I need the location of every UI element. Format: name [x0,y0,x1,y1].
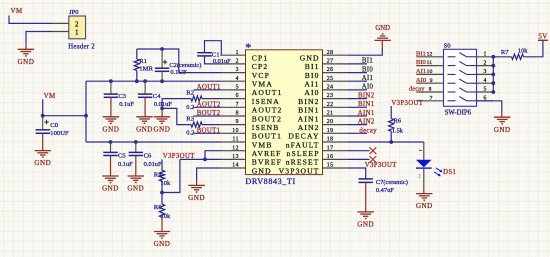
junction VMB rail at C6 [134,140,138,144]
pin 2 stub of JP0 [52,22,69,24]
wire switch pin 6 to ground [477,101,502,112]
svg-text:20: 20 [327,119,334,125]
svg-text:4: 4 [484,78,487,84]
wire BIN1 [348,106,368,108]
wire AIN1 [348,115,368,117]
svg-text:BIN2: BIN2 [358,92,375,99]
wire VMA rail [86,80,221,82]
svg-text:S0: S0 [444,43,452,50]
svg-text:decay: decay [359,128,377,135]
net label AIN2 [358,118,375,125]
wire GND pin 14 [197,168,221,180]
svg-text:14: 14 [232,163,239,169]
svg-text:AI0: AI0 [304,88,319,97]
junction VMA rail at C2 [160,79,164,83]
svg-text:5V: 5V [538,32,547,40]
net label AI0 [362,84,374,91]
svg-text:3: 3 [484,69,487,75]
svg-text:10: 10 [232,128,239,134]
svg-text:AOUT1: AOUT1 [252,88,283,97]
svg-text:10k: 10k [161,213,171,220]
net label BI0 [362,66,373,73]
pin 7 number [430,95,433,101]
wire VM label to C0 node [42,99,44,115]
junction bus row 5 [491,90,495,94]
svg-text:26: 26 [327,67,334,73]
net label AIN1 [358,110,375,117]
svg-text:24: 24 [327,85,334,91]
ground (below C4) [136,117,153,134]
svg-text:V3P3OUT: V3P3OUT [163,153,195,160]
svg-text:4: 4 [236,76,239,82]
ground (below JP0) [17,49,34,66]
svg-text:AI0: AI0 [416,77,427,84]
net label V3P3OUT (pin 15) [365,162,397,169]
svg-text:V3P3OUT: V3P3OUT [279,166,320,175]
svg-text:VMA: VMA [252,80,273,89]
net label V3P3OUT (at R6) [391,100,423,107]
svg-text:AOUT1: AOUT1 [197,84,221,91]
svg-text:13: 13 [232,154,239,160]
wire AIN2 [348,124,368,126]
svg-text:GND: GND [188,194,205,202]
net label BIN2 [358,92,375,99]
svg-text:BOUT1: BOUT1 [252,132,282,141]
svg-text:10k: 10k [518,48,528,55]
svg-text:R6: R6 [393,118,401,125]
junction VM riser / C0 branch [84,114,88,118]
svg-text:10k: 10k [161,180,171,187]
svg-text:AIN1: AIN1 [358,110,375,117]
svg-text:15: 15 [327,163,334,169]
svg-text:GND: GND [154,240,171,248]
junction VMA rail at C4 [143,79,147,83]
svg-text:GND: GND [127,185,144,193]
svg-text:GND: GND [357,221,374,229]
svg-text:12: 12 [427,51,433,57]
svg-text:0.01uF: 0.01uF [144,161,162,168]
resistor R6 1.5k [389,106,404,142]
svg-text:9: 9 [236,119,239,125]
wire BI1 [348,63,368,65]
svg-text:2: 2 [75,20,79,28]
svg-text:1: 1 [236,50,239,56]
polarity mark asterisk [245,40,251,54]
svg-text:VMB: VMB [252,140,273,149]
ground (below C3) [102,117,119,134]
svg-text:AIN2: AIN2 [298,123,320,132]
svg-text:VM: VM [44,92,56,100]
wire nSLEEP [348,150,370,152]
svg-text:9: 9 [430,78,433,84]
wire AOUT1 [194,89,221,91]
svg-text:nFAULT: nFAULT [286,140,320,149]
pin 1 stub of JP0 [52,31,69,33]
svg-text:CP1: CP1 [252,54,269,63]
junction VMA rail at C3 [109,79,113,83]
svg-text:16: 16 [327,154,334,160]
net label BOUT1 [197,128,221,135]
capacitor C6 0.01uF [129,142,162,176]
net label BIN1 [358,101,375,108]
svg-text:2: 2 [484,60,487,66]
power symbol 5V [538,32,548,40]
svg-text:GND: GND [416,202,433,210]
svg-text:10: 10 [427,69,433,75]
svg-text:BIN2: BIN2 [298,97,319,106]
wire VCP top rail [137,49,221,73]
ground (below C5) [102,176,119,193]
ground (below R5) [154,232,171,249]
svg-text:8: 8 [236,111,239,117]
resistor R1 1MR [134,49,153,81]
svg-text:AI0: AI0 [362,84,374,91]
ground (below LED) [416,188,433,210]
wire BVREF (pin 13) [180,158,221,160]
svg-text:AI1: AI1 [362,75,374,82]
svg-text:1MR: 1MR [139,66,153,73]
wire VM riser (vertical) [85,81,87,142]
svg-text:C2(ceramic): C2(ceramic) [169,62,201,69]
svg-text:0.1uF: 0.1uF [119,101,134,108]
junction top rail at C2 [160,47,164,51]
svg-text:6: 6 [236,93,239,99]
svg-text:BI1: BI1 [305,62,320,71]
svg-text:5: 5 [484,87,487,93]
svg-text:C7(ceramic): C7(ceramic) [376,179,408,186]
svg-text:DRV8843_TI: DRV8843_TI [245,177,295,186]
junction bus row 1 [491,55,495,59]
svg-text:22: 22 [327,102,334,108]
svg-text:AI1: AI1 [416,68,426,75]
net label DS1 [443,169,456,176]
junction AVREF/BVREF [203,158,207,162]
svg-text:11: 11 [232,137,239,143]
svg-text:AI1: AI1 [304,80,319,89]
svg-text:0.47uF: 0.47uF [376,187,394,194]
capacitor C0 100UF (polarized) [36,116,69,151]
svg-text:BI1: BI1 [362,58,373,65]
net label AI1 [362,75,374,82]
svg-text:100UF: 100UF [50,130,69,137]
capacitor C5 0.1uF [103,142,133,176]
svg-text:C4: C4 [153,93,161,100]
resistor R7 10k [501,48,528,60]
svg-text:2: 2 [236,59,239,65]
resistor R5 10k [154,193,171,232]
net label AI0 / pin 9 [416,77,433,84]
svg-text:JP0: JP0 [69,9,79,16]
op-amp U1 DRV8843_TI (IC body with pins) [221,50,348,176]
svg-text:BOUT1: BOUT1 [197,128,221,135]
ground (below C0) [34,151,51,168]
net label decay [359,128,377,135]
svg-text:AIN2: AIN2 [358,118,375,125]
svg-text:AOUT2: AOUT2 [252,106,283,115]
svg-text:0.2: 0.2 [186,104,194,111]
svg-text:BOUT2: BOUT2 [197,110,221,117]
svg-text:5: 5 [236,85,239,91]
net label decay / pin 8 [409,86,432,93]
svg-text:28: 28 [327,50,334,56]
svg-text:R4: R4 [154,172,162,179]
svg-text:V3P3OUT: V3P3OUT [365,162,397,169]
ground (sense resistors) [153,108,170,133]
wire CP2 from C1 [205,56,221,64]
svg-text:ISENB: ISENB [252,123,280,132]
net label BI0 / pin 11 [416,59,432,66]
svg-text:SW-DIP6: SW-DIP6 [445,109,472,116]
svg-text:19: 19 [327,128,334,134]
svg-text:AVREF: AVREF [252,149,282,158]
wire C0 node to VM riser [43,115,86,117]
svg-text:Header 2: Header 2 [68,43,95,50]
wire AOUT2 [194,106,221,108]
svg-text:*: * [245,40,251,54]
ground (below C6) [127,176,144,193]
svg-text:0.1UF: 0.1UF [170,69,187,76]
wire AI1 [348,80,368,82]
net label AOUT2 [197,102,221,109]
svg-text:7: 7 [236,102,239,108]
resistor R2 0.2 [186,90,220,111]
ground (below C7) [357,212,374,229]
svg-text:BI0: BI0 [362,66,373,73]
svg-text:R2: R2 [186,90,194,97]
svg-text:1: 1 [75,29,79,37]
ground (below switch) [494,111,511,134]
wire BVREF down to divider [162,159,180,192]
svg-text:decay: decay [409,86,425,93]
svg-text:21: 21 [327,111,334,117]
capacitor C7 0.47uF ceramic [359,179,408,212]
svg-text:18: 18 [327,137,334,143]
svg-text:AOUT2: AOUT2 [197,102,221,109]
wire nFAULT down to LED [423,142,425,160]
wire sense ground to R3 [162,108,191,124]
svg-text:GND: GND [34,159,51,167]
junction VMB rail at C5 [109,140,113,144]
svg-text:C0: C0 [50,122,58,129]
svg-text:GND: GND [102,185,119,193]
svg-text:1: 1 [484,52,487,58]
svg-text:GND: GND [153,125,170,133]
junction bus row 3 [491,73,495,77]
wire pin 28 to ground [348,48,383,55]
svg-text:25: 25 [327,76,334,82]
ground (pin 14) [188,179,205,202]
junction divider midpoint [160,191,164,195]
ground (above pin 28, pointing up) [375,25,391,49]
svg-text:GND: GND [494,126,511,134]
svg-text:BIN1: BIN1 [358,101,375,108]
svg-text:8: 8 [429,87,432,93]
svg-text:3: 3 [236,67,239,73]
svg-text:27: 27 [327,59,334,65]
wire V3P3OUT pin 15 [348,168,366,179]
junction bus row 4 [491,81,495,85]
net label AI1 / pin 10 [416,68,433,75]
wire AI0 [348,89,368,91]
svg-text:0.1uF: 0.1uF [118,161,133,168]
capacitor C2 0.1UF ceramic [155,49,201,81]
wire R2 to sense ground [162,99,191,109]
capacitor C1 0.01uF [197,51,231,65]
svg-text:R3: R3 [186,115,194,122]
svg-text:R5: R5 [154,204,162,211]
svg-text:BI1: BI1 [416,50,426,57]
svg-text:BIN1: BIN1 [298,106,319,115]
wire JP0 pin 1 to ground [26,32,52,50]
connector JP0 [68,9,95,50]
junction sense ground [160,107,164,111]
wire VMB rail [86,141,221,143]
svg-text:7: 7 [430,95,433,101]
svg-text:BI0: BI0 [416,59,427,66]
net label VM (middle left) [44,92,56,100]
wire AVREF (pin 12) [205,151,221,160]
svg-text:DECAY: DECAY [288,132,319,141]
wire BOUT2 [194,115,221,117]
wire R7 to 5V [524,40,543,57]
designator text DRV8843_TI [245,177,295,186]
net label AOUT1 [197,84,221,91]
net label VM (top left) [11,7,23,15]
wire bus to R7 [493,56,511,58]
wire nFAULT [348,141,424,143]
capacitor C3 0.1uF [104,81,135,117]
net label BI1 [362,58,373,65]
svg-text:12: 12 [232,145,239,151]
svg-text:ISENA: ISENA [252,97,280,106]
svg-text:CP2: CP2 [252,62,269,71]
wire CP1 loop [205,41,222,56]
svg-text:23: 23 [327,93,334,99]
resistor R4 10k [154,159,171,192]
wire BOUT1 [194,132,221,134]
wire BI0 [348,72,368,74]
svg-text:0.2: 0.2 [186,129,194,136]
svg-text:nSLEEP: nSLEEP [287,149,320,158]
wire switch output bus [492,57,494,92]
svg-text:11: 11 [427,60,433,66]
wire VM to JP0 pin 2 [9,16,52,24]
svg-text:R1: R1 [139,58,147,65]
svg-text:C5: C5 [118,152,126,159]
svg-text:DS1: DS1 [443,169,456,176]
svg-text:GND: GND [300,54,320,63]
wire nRESET [348,158,370,160]
svg-text:GND: GND [375,25,390,32]
svg-text:VM: VM [11,7,23,15]
wire decay [348,132,368,134]
svg-text:1.5k: 1.5k [392,128,404,135]
comment text SW-DIP6 [445,109,472,116]
svg-text:C3: C3 [118,93,126,100]
svg-text:GND: GND [252,166,272,175]
svg-text:GND: GND [136,125,153,133]
resistor R3 0.2 [186,115,220,136]
wire BIN2 [348,98,368,100]
junction at C0 node [41,114,45,118]
no-connect X nRESET [370,156,377,163]
switch S0 SW-DIP6 (body with pins) [416,49,493,106]
LED DS1 [416,150,443,188]
no-connect X nSLEEP [370,147,377,154]
svg-text:GND: GND [17,58,34,66]
junction VMA rail at R1 [135,79,139,83]
junction nFAULT at R6 [389,140,393,144]
capacitor C4 0.01uF [138,81,172,117]
net label BI1 / pin 12 [416,50,433,57]
net label BOUT2 [197,110,221,117]
svg-text:C6: C6 [144,152,152,159]
svg-text:GND: GND [102,125,119,133]
junction bus row 2 [491,64,495,68]
svg-text:R7: R7 [501,49,509,56]
svg-text:17: 17 [327,145,334,151]
net label V3P3OUT (left) [163,153,195,160]
designator text S0 [444,43,452,50]
